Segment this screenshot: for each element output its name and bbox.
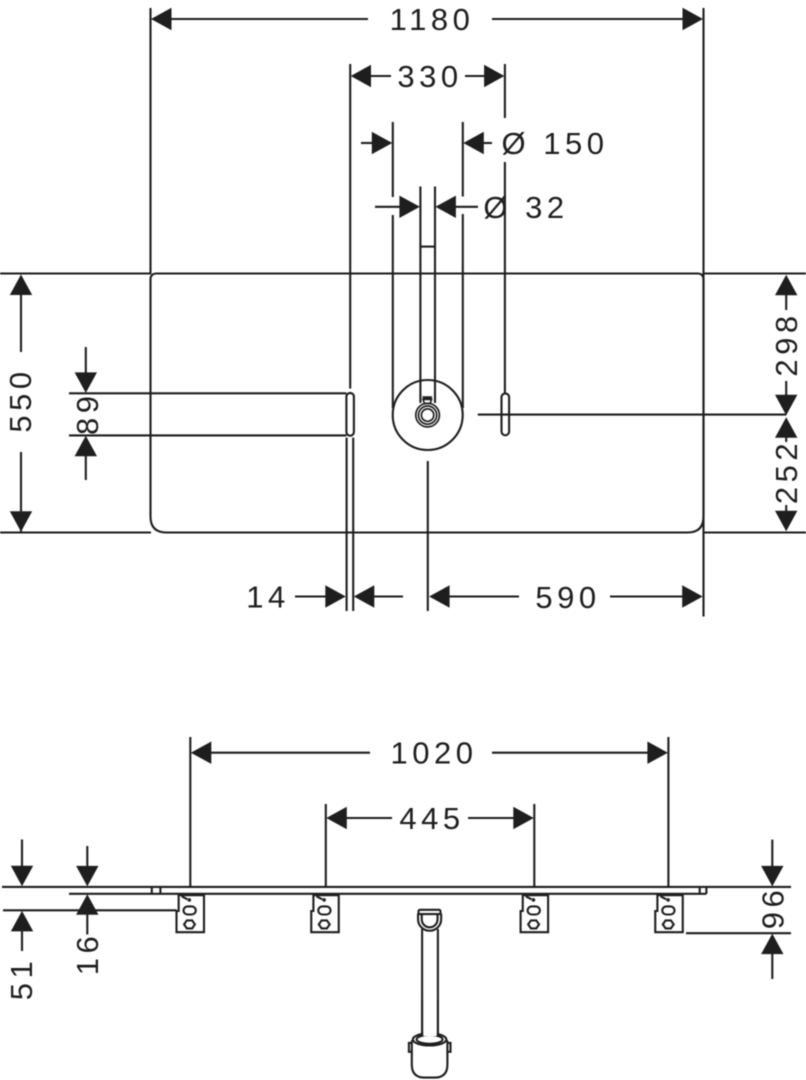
- dim 445 right extension: [533, 804, 535, 887]
- tap hole ring inner: [421, 409, 433, 421]
- drain pipe left wall: [421, 929, 423, 1035]
- dim 89 tails: [85, 347, 87, 373]
- arrow 298 top: [775, 275, 797, 296]
- slot centre reference line left: [3, 909, 177, 911]
- svg-text:Ø 150: Ø 150: [502, 126, 609, 161]
- tap hole ring outer: [416, 403, 440, 427]
- arrow D150 left: [372, 132, 393, 154]
- svg-text:14: 14: [246, 580, 289, 615]
- bracket 2 slot: [318, 906, 330, 914]
- tap spout tip line: [420, 246, 435, 248]
- slab left end cap: [151, 887, 153, 894]
- bracket 2 outline: [311, 895, 339, 932]
- dim 16 tails: [86, 846, 88, 867]
- dim 1020 left extension: [189, 737, 191, 887]
- bracket 3 clip: [526, 896, 532, 899]
- dim 445 line: [346, 817, 392, 819]
- extension line top edge right: [703, 272, 806, 274]
- dim 14 tails: [295, 595, 326, 597]
- svg-text:550: 550: [3, 367, 38, 432]
- faucet centre lower extension: [427, 461, 429, 611]
- dim 1180 right extension / basin right edge extended: [702, 8, 704, 617]
- bracket 4 outline: [655, 895, 683, 932]
- 89 reference line upper: [69, 392, 346, 394]
- dim 330 left extension: [349, 64, 351, 389]
- arrow 1020 left: [191, 742, 212, 764]
- drain pipe wall lower left: [421, 1000, 423, 1036]
- bracket bottom reference line right: [686, 932, 791, 934]
- bracket 3 hex: [528, 920, 539, 928]
- svg-text:Ø 32: Ø 32: [483, 190, 568, 225]
- arrow 96 up: [761, 934, 783, 955]
- tap spout right edge: [434, 187, 436, 404]
- svg-text:445: 445: [399, 801, 464, 836]
- extension line top edge left: [0, 272, 151, 274]
- dim 445 left extension: [325, 804, 327, 887]
- washbasin top-view outline: [151, 274, 704, 533]
- left slot: [346, 393, 354, 436]
- bracket 1 outline: [177, 895, 205, 932]
- drain pipe right wall: [437, 929, 439, 1035]
- extension line bottom edge right: [703, 531, 806, 533]
- svg-text:590: 590: [535, 580, 600, 615]
- dim 96 tails: [771, 840, 773, 867]
- arrow 550 bottom: [10, 511, 32, 532]
- dim 1180 left extension: [149, 8, 151, 274]
- svg-text:96: 96: [755, 886, 790, 929]
- tap aerator black band: [422, 396, 432, 399]
- bracket 4 dot: [666, 898, 670, 902]
- arrow 445 right: [513, 807, 534, 829]
- bracket 4 hex: [663, 920, 674, 928]
- arrow D150 right: [463, 132, 484, 154]
- drain outlet U outer: [418, 914, 441, 931]
- tap hole ring middle: [419, 406, 437, 424]
- arrow 51 down: [11, 866, 33, 887]
- arrow 89 top: [75, 372, 97, 393]
- svg-text:1180: 1180: [390, 2, 475, 37]
- bracket 3 slot: [528, 906, 540, 914]
- bracket 4 clip: [661, 896, 667, 899]
- arrow 1180 right: [683, 8, 704, 30]
- trap tab left: [409, 1043, 414, 1052]
- dim 1020 right extension: [667, 737, 669, 887]
- trap rim inner ellipse: [417, 1035, 443, 1044]
- dim 298/252 line: [785, 295, 787, 311]
- dim D150 left extension: [392, 122, 394, 197]
- arrow 252 mid-up: [775, 417, 797, 438]
- drain pipe wall lower right: [437, 1000, 439, 1036]
- bracket 3 dot: [532, 898, 536, 902]
- slab bottom line with left extension: [69, 893, 706, 895]
- bracket 2 dot: [322, 898, 326, 902]
- bracket 1 hex: [184, 920, 195, 928]
- arrow 1180 left: [151, 8, 172, 30]
- dim D150 tails: [361, 142, 372, 144]
- arrow 1020 right: [647, 742, 668, 764]
- bracket 3 outline: [521, 895, 549, 932]
- svg-text:16: 16: [70, 932, 105, 975]
- arrow 252 bottom: [775, 511, 797, 532]
- arrow 14 right-point: [325, 585, 346, 607]
- tap aerator cone outline: [423, 399, 432, 403]
- arrow 298 mid-down: [775, 395, 797, 416]
- dim 1020 line: [210, 752, 370, 754]
- faucet circle D150: [393, 380, 463, 450]
- dim 1180 line: [171, 18, 368, 20]
- svg-text:89: 89: [70, 392, 105, 435]
- dim 550 line: [20, 276, 22, 352]
- arrow 590 right: [682, 585, 703, 607]
- dim D150 right extension: [462, 122, 464, 197]
- dim 330 right extension: [504, 64, 506, 118]
- dim 330 line: [370, 75, 391, 77]
- right slot: [502, 393, 510, 435]
- bracket 2 hex: [319, 920, 330, 928]
- drain outlet U inner: [422, 914, 438, 928]
- arrow 96 down: [761, 866, 783, 887]
- arrow D32 right: [435, 196, 456, 218]
- bracket 1 dot: [188, 898, 192, 902]
- left slot lower extension b: [352, 438, 354, 611]
- left slot lower extension a: [346, 438, 348, 611]
- extension line bottom edge left: [0, 531, 151, 533]
- arrow 51 up: [11, 911, 33, 932]
- trap tab right: [445, 1043, 450, 1052]
- arrow 16 down: [76, 866, 98, 887]
- arrow 550 top: [10, 275, 32, 296]
- drain pipe mask: [423, 1000, 437, 1036]
- bracket 4 slot: [662, 906, 674, 914]
- slab top line full width: [2, 886, 791, 888]
- svg-text:252: 252: [769, 439, 804, 504]
- tap spout left edge: [419, 187, 421, 404]
- arrow 14 left-point: [354, 585, 375, 607]
- bracket 2 clip: [317, 896, 323, 899]
- svg-text:1020: 1020: [391, 736, 478, 771]
- svg-text:330: 330: [397, 59, 462, 94]
- arrow 89 bottom: [75, 436, 97, 457]
- slab right end cap: [699, 887, 701, 894]
- 298/252 reference line: [478, 414, 786, 416]
- dim D32 tails: [375, 206, 400, 208]
- arrow 330 right: [484, 65, 504, 87]
- arrow 16 up: [76, 894, 98, 915]
- bracket 1 clip: [182, 896, 188, 899]
- trap cup body: [412, 1041, 448, 1078]
- bracket 1 slot: [184, 906, 196, 914]
- arrow D32 left: [399, 196, 420, 218]
- svg-text:51: 51: [4, 957, 39, 1000]
- trap rim outer ellipse: [413, 1033, 447, 1045]
- arrow 330 left: [351, 65, 371, 87]
- arrow 590 left: [429, 585, 450, 607]
- drain flange: [419, 910, 441, 914]
- dim 590 line: [449, 595, 519, 597]
- dim 51 tails: [21, 840, 23, 867]
- svg-text:298: 298: [769, 311, 804, 376]
- 89 reference line lower: [69, 434, 346, 436]
- arrow 445 left: [326, 807, 347, 829]
